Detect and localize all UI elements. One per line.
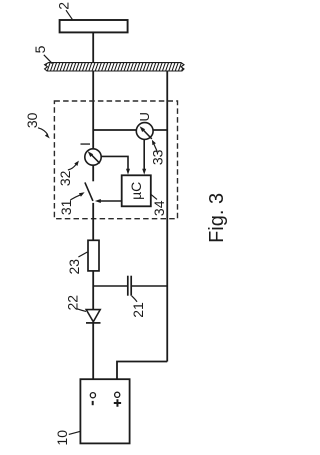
wire I-meter to uC (with down arrow) [101,156,130,174]
label 32 [57,161,79,187]
label I [77,142,93,146]
label 22 [65,295,87,312]
svg-text:33: 33 [150,149,166,165]
wall 5 (hatched bar) [44,63,185,71]
block 2 [60,20,128,32]
svg-text:I: I [77,142,93,146]
capacitor 21 [128,276,131,296]
svg-text:23: 23 [66,259,82,275]
dashed box 30 [54,101,177,219]
svg-text:31: 31 [58,199,74,215]
label 23 [66,252,87,274]
label 10 [54,430,80,446]
label 31 [58,192,85,215]
wire wall to jog (right riser) [166,71,168,362]
wire wall to I-meter (left riser) [92,71,94,149]
wire resistor to diode [92,271,94,310]
svg-text:10: 10 [54,430,70,446]
svg-text:32: 32 [57,170,73,186]
svg-text:34: 34 [151,200,167,216]
svg-text:U: U [137,112,152,121]
resistor 23 [88,240,99,271]
wire block2 to wall [92,32,94,63]
diode 22 [86,310,101,323]
switch 31 [85,165,93,201]
label U [137,112,152,121]
wire capacitor branch [93,285,167,287]
svg-text:22: 22 [65,295,81,311]
terminal minus [90,393,95,398]
wire diode to battery [92,323,94,393]
wire U-meter to uC (with down arrow) [142,139,146,174]
svg-text:5: 5 [32,45,48,53]
microcontroller uC U34 [122,175,151,206]
wire uC to switch (left arrow) [95,199,122,203]
wire node to U-meter (horizontal branch) [93,129,167,131]
svg-text:2: 2 [55,2,71,10]
label 33 [150,140,166,165]
label 34 [150,194,167,216]
label 21 [130,296,146,318]
label 5 [32,45,52,63]
wire switch to resistor [92,203,94,240]
svg-text:30: 30 [24,112,40,128]
label 2 [55,2,72,20]
voltmeter U 33 [136,123,153,140]
terminal plus [115,392,120,397]
svg-text:Fig. 3: Fig. 3 [206,193,228,243]
ammeter I 32 [85,149,101,165]
svg-text:µC: µC [128,182,144,200]
figure caption Fig. 3 [206,193,228,243]
wire jog right riser to battery plus [117,362,167,393]
label 30 [24,112,50,138]
svg-text:21: 21 [130,302,146,318]
battery 10 [80,379,129,443]
